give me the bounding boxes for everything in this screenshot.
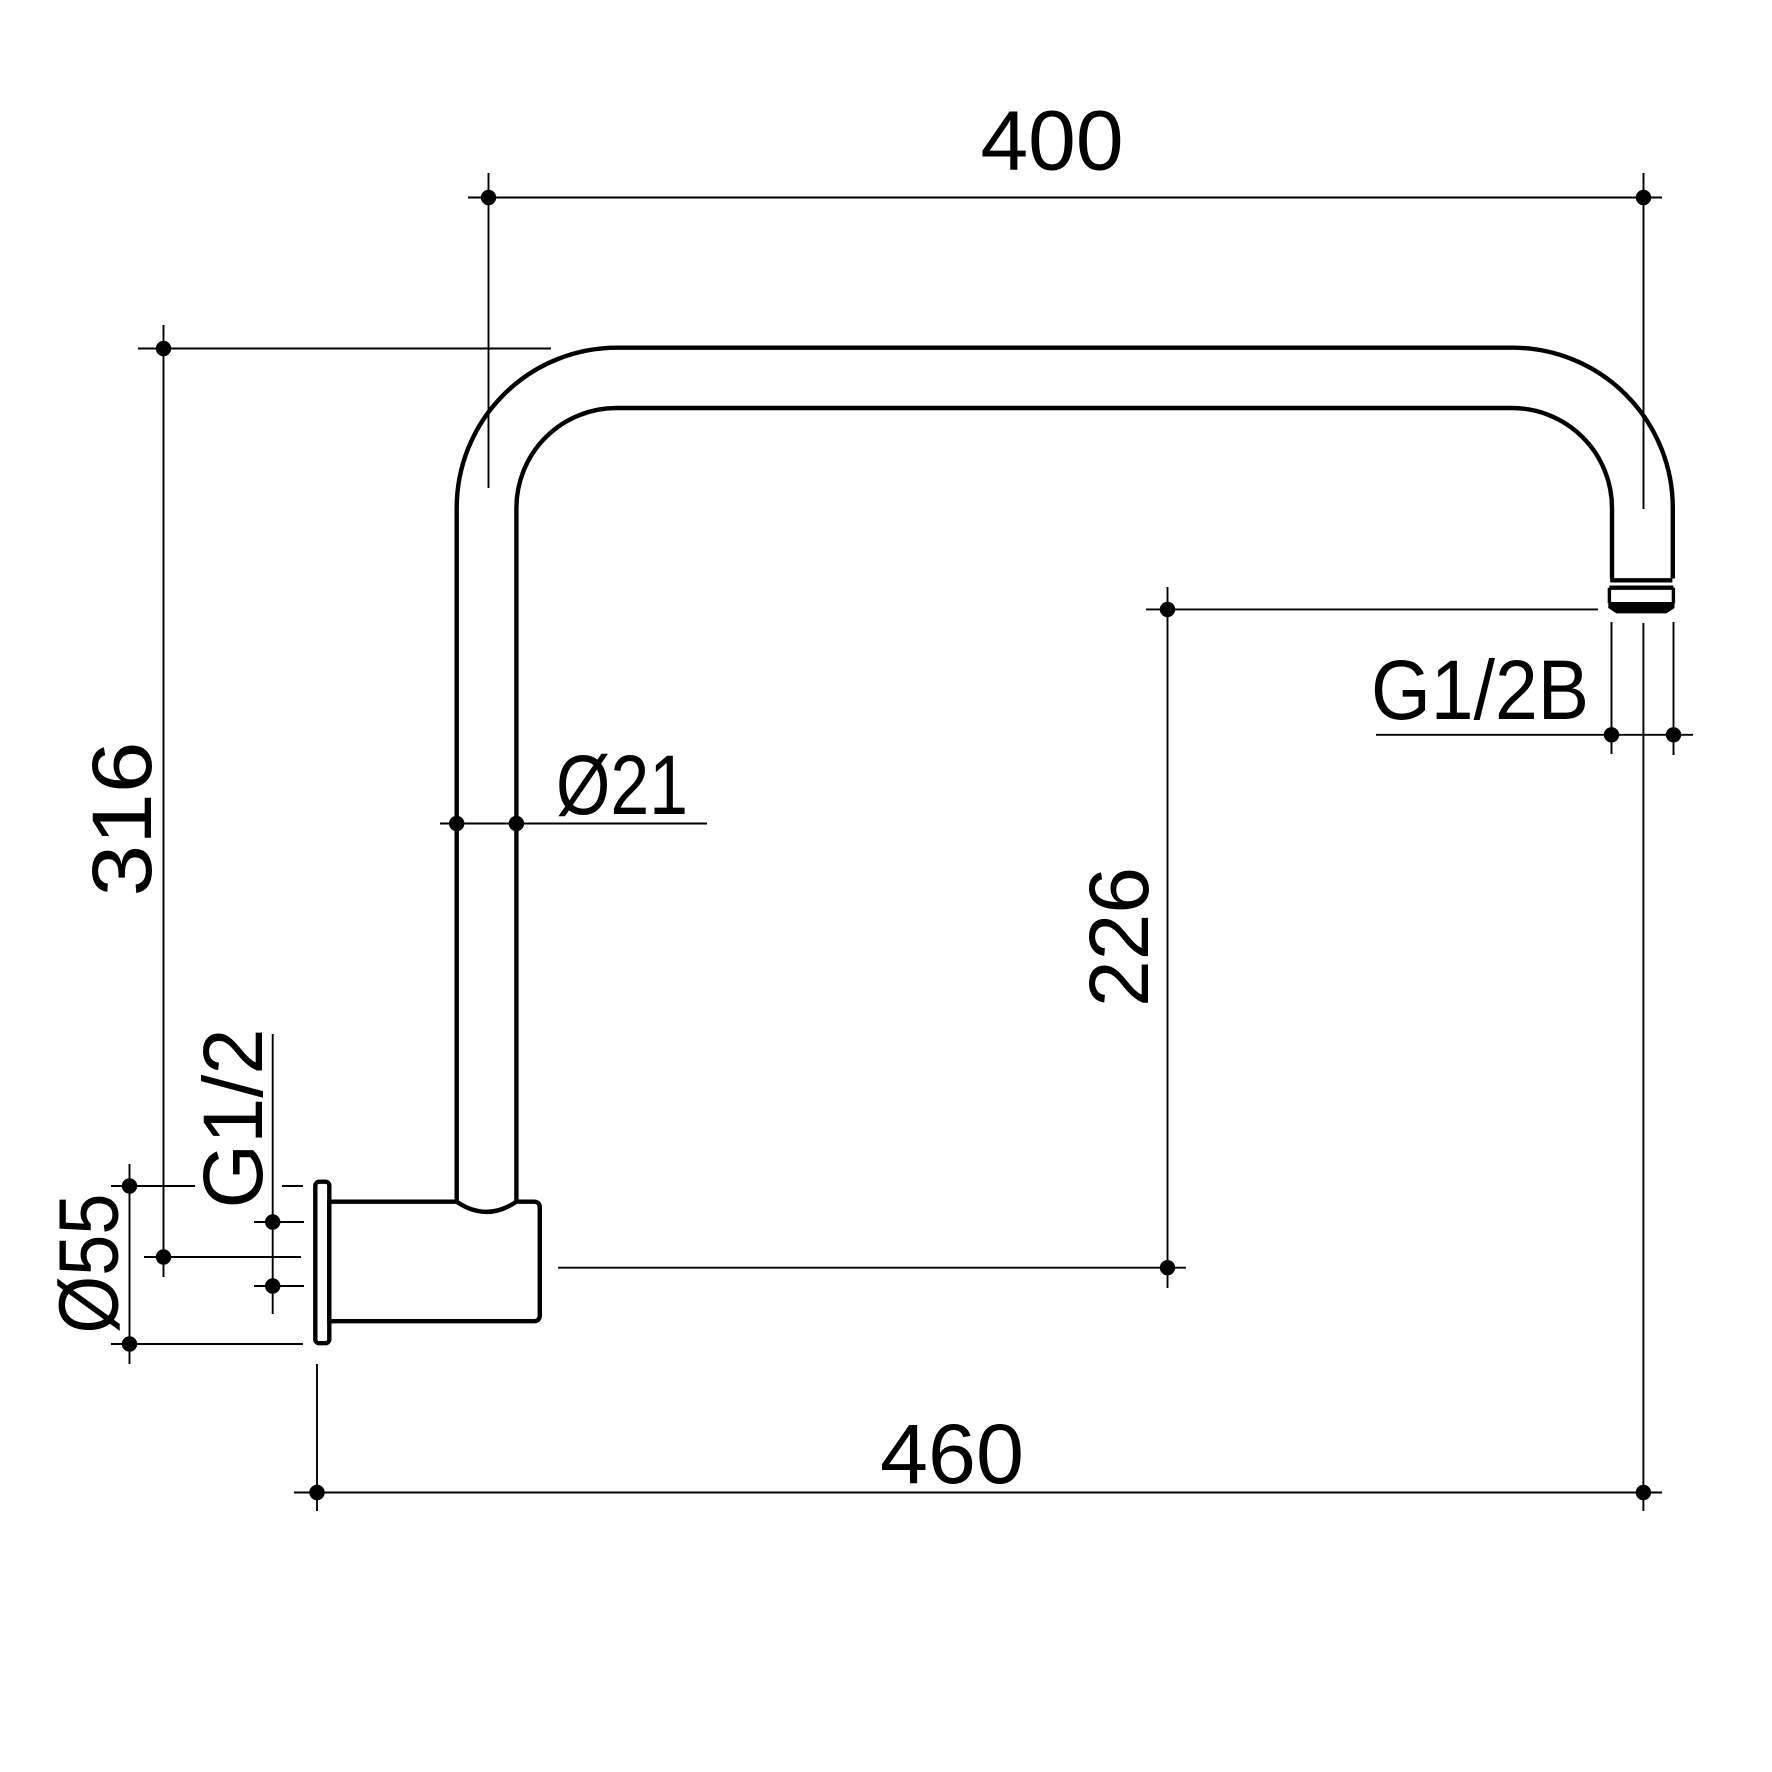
wall body cylinder bbox=[329, 1202, 540, 1322]
dimension Ø55: end dots bbox=[122, 1178, 137, 1193]
dimension G1/2: line bbox=[272, 1034, 274, 1314]
dimension Ø55: line bbox=[129, 1164, 131, 1364]
dimension G1/2B: right extension bbox=[1673, 622, 1675, 755]
outlet thread ring line A bbox=[1610, 578, 1672, 582]
dimension G1/2B: left extension bbox=[1611, 622, 1613, 754]
dimension G1/2B: end dots bbox=[1604, 727, 1619, 742]
dimension 460: left extension bbox=[316, 1364, 318, 1511]
wall flange plate bbox=[315, 1182, 329, 1344]
dimension 460: end dots bbox=[309, 1485, 324, 1500]
dimension 316: line bbox=[163, 325, 165, 1277]
dimension G1/2: bottom tick bbox=[254, 1285, 304, 1287]
dimension Ø21: end dots bbox=[449, 816, 464, 831]
dimension Ø55: top extension (split around G1/2 label) bbox=[111, 1185, 195, 1187]
dimension G1/2: end dots bbox=[265, 1214, 280, 1229]
dimension 226: top extension bbox=[1146, 608, 1598, 610]
outlet end cap (black) bbox=[1608, 603, 1674, 614]
dimension 316: top extension bbox=[138, 348, 551, 350]
svg-text:400: 400 bbox=[981, 94, 1124, 188]
dimension 226: bottom extension bbox=[558, 1267, 1186, 1269]
svg-text:G1/2B: G1/2B bbox=[1371, 643, 1589, 737]
shower arm inner outline bbox=[516, 408, 1612, 1202]
dimension 460: line bbox=[294, 1492, 1662, 1494]
dimension 400: left extension bbox=[488, 173, 490, 488]
svg-text:226: 226 bbox=[1072, 867, 1166, 1007]
dimension 400: line bbox=[468, 197, 1662, 199]
dimension Ø55: bottom extension bbox=[111, 1343, 303, 1345]
outlet centre line bbox=[1642, 623, 1644, 1511]
shower arm outer outline bbox=[457, 348, 1673, 1202]
dimension 400: right extension bbox=[1643, 173, 1645, 509]
svg-text:316: 316 bbox=[75, 742, 169, 897]
dimension 226: end dots bbox=[1160, 602, 1175, 617]
dimension 316: bottom extension bbox=[144, 1256, 301, 1258]
tube/body junction fillet bbox=[457, 1202, 517, 1212]
svg-text:Ø55: Ø55 bbox=[42, 1194, 136, 1334]
svg-text:G1/2: G1/2 bbox=[186, 1029, 280, 1209]
dimension Ø21: line bbox=[440, 823, 707, 825]
dimension G1/2: top tick bbox=[254, 1221, 304, 1223]
outlet collar bbox=[1609, 588, 1673, 604]
dimension 316: end dots bbox=[156, 341, 171, 356]
dimension 400: end dots bbox=[481, 190, 496, 205]
dimension 226: line bbox=[1167, 587, 1169, 1288]
dimension G1/2B: line bbox=[1376, 734, 1693, 736]
svg-text:460: 460 bbox=[880, 1407, 1024, 1501]
outlet thread ring line B bbox=[1609, 586, 1673, 590]
svg-text:Ø21: Ø21 bbox=[556, 738, 688, 832]
